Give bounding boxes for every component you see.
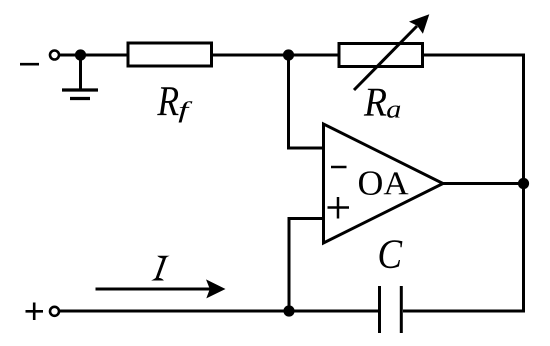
op-amp non-inverting pin mark (plus) (328, 197, 350, 219)
resistor Ra (variable) (339, 44, 423, 67)
wire bottom: circle to capacitor (59, 310, 378, 313)
terminal top-left (open circle) (50, 51, 59, 60)
terminal label minus (top-left input polarity) (20, 63, 39, 66)
terminal label plus (bottom-left input polarity) (26, 303, 44, 321)
wire: op-amp output to right rail (443, 182, 524, 185)
wire top: Rf to Ra (212, 54, 340, 57)
op-amp inverting pin mark (minus) (331, 166, 347, 169)
wire bottom: capacitor to bottom-right corner (403, 310, 525, 313)
wire: junction down to inverting input (289, 55, 324, 148)
label I (151, 256, 170, 281)
node: junction to inverting input (283, 49, 294, 60)
wire: ground stem (79, 55, 82, 89)
node: output junction on right rail (518, 178, 529, 189)
terminal bottom-left (open circle) (50, 307, 59, 316)
resistor Rf (128, 43, 212, 66)
node: junction at ground tap (75, 49, 86, 60)
current arrow I (96, 279, 226, 298)
arrow of variable resistor Ra (354, 14, 429, 90)
wire: bottom junction up to non-inverting input (289, 219, 323, 312)
label OA (359, 171, 408, 195)
label C (380, 240, 403, 268)
capacitor C plates (380, 286, 402, 333)
label Rf (157, 87, 192, 122)
wire: Ra to top-right corner and down right side (423, 55, 524, 311)
ground (62, 90, 98, 99)
wire top: circle to resistor Rf (59, 54, 128, 57)
op-amp U1 (OA) (324, 124, 444, 243)
label Ra (364, 89, 400, 118)
node: bottom junction to non-inverting input (283, 305, 294, 316)
